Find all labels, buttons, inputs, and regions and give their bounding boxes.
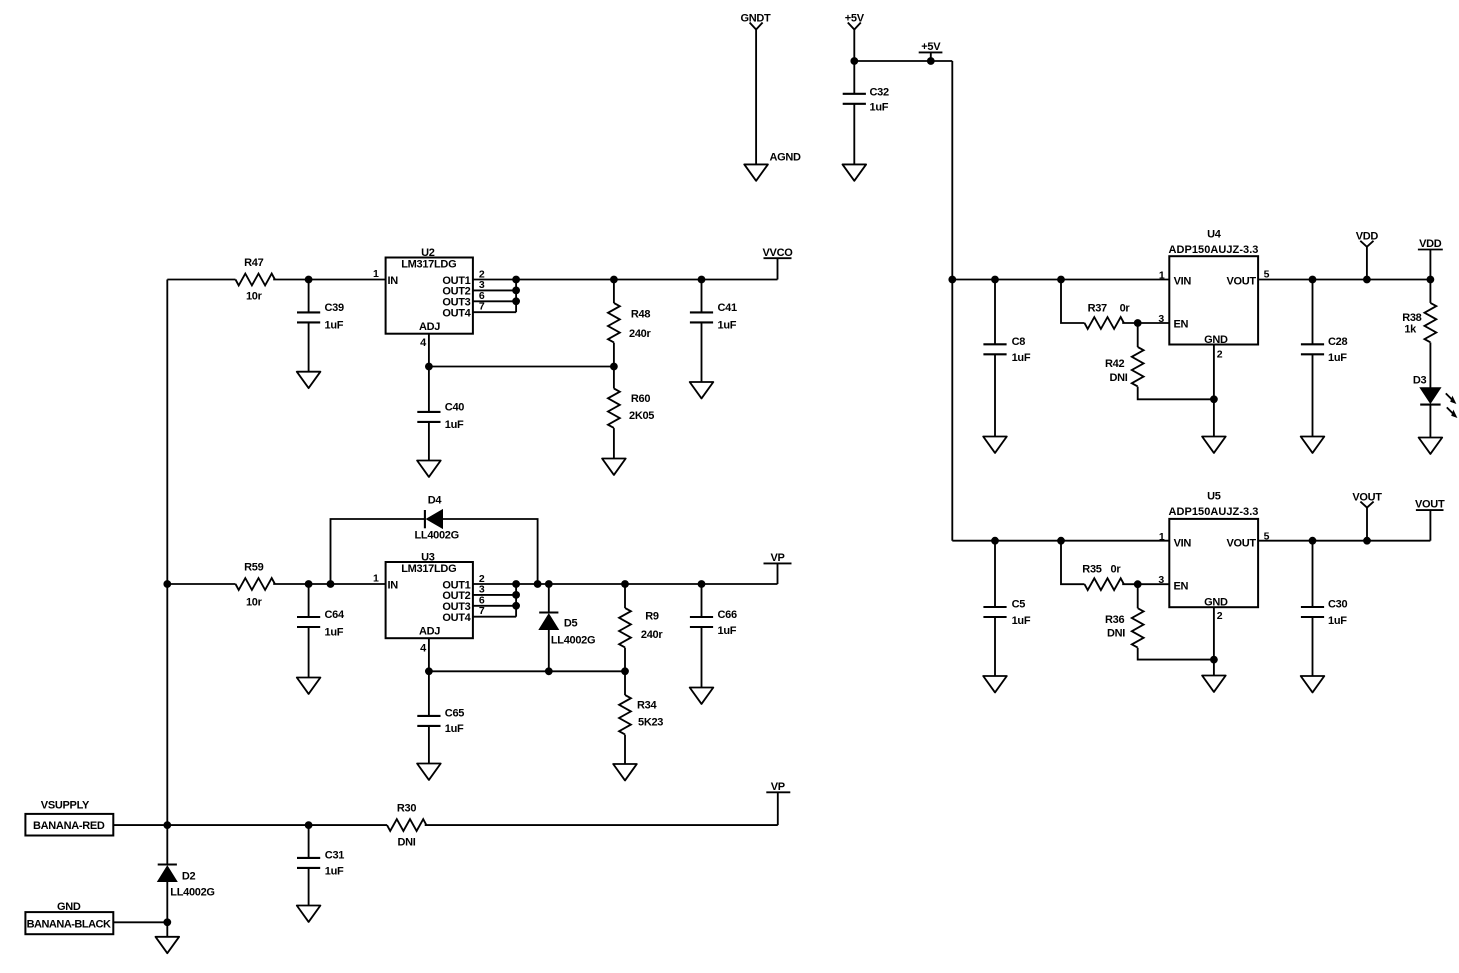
diode D4 LL4002G: [415, 494, 459, 541]
wire R30 to VP: [425, 824, 778, 826]
node C41 junction: [698, 276, 706, 284]
node R37 branch junction: [1057, 276, 1065, 284]
svg-text:C64: C64: [325, 609, 345, 621]
node VP terminal mid: [764, 552, 792, 584]
svg-text:+5V: +5V: [845, 12, 865, 24]
svg-text:1: 1: [373, 268, 379, 280]
resistor R35 0r: [1082, 564, 1124, 591]
resistor R48 240r: [608, 303, 651, 342]
svg-text:5K23: 5K23: [638, 717, 663, 729]
wire joining U3 outputs: [515, 584, 517, 617]
svg-text:1uF: 1uF: [1328, 352, 1347, 364]
svg-text:D3: D3: [1413, 375, 1427, 387]
svg-text:VP: VP: [771, 781, 785, 793]
diode D2 LL4002G: [158, 825, 215, 899]
svg-text:GNDT: GNDT: [741, 12, 772, 24]
svg-text:C30: C30: [1328, 599, 1347, 611]
capacitor C65: [417, 708, 464, 736]
pin 5 U4: [1258, 268, 1430, 280]
pin 2 U3: [473, 573, 516, 585]
svg-text:3: 3: [1158, 574, 1164, 586]
svg-text:1uF: 1uF: [718, 320, 737, 332]
node label VOUT: [1415, 499, 1445, 541]
svg-text:1uF: 1uF: [1012, 352, 1031, 364]
ground under C40: [417, 461, 441, 477]
wire ADJ to R34 node: [429, 670, 625, 672]
wire GNDT to AGND: [755, 30, 757, 165]
wire GND stub: [166, 922, 168, 937]
ground under C64: [297, 678, 321, 694]
capacitor C40: [417, 402, 464, 432]
svg-text:2: 2: [1217, 349, 1223, 361]
svg-text:ADP150AUJZ-3.3: ADP150AUJZ-3.3: [1169, 244, 1259, 256]
resistor R34 5K23: [619, 695, 663, 734]
wire C39 to ground: [308, 322, 310, 371]
svg-text:OUT4: OUT4: [442, 307, 471, 319]
node label +5V: [919, 41, 943, 65]
resistor R30 DNI: [387, 803, 426, 849]
ground AGND: [744, 152, 801, 181]
svg-text:LL4002G: LL4002G: [170, 887, 214, 899]
wire U3 output rail: [516, 583, 777, 585]
node OUT2 junction U3: [512, 591, 520, 599]
svg-text:ADJ: ADJ: [419, 321, 440, 333]
wire ADJ to R48/R60 node: [429, 366, 614, 368]
svg-text:DNI: DNI: [1110, 372, 1128, 384]
svg-text:C5: C5: [1012, 599, 1026, 611]
svg-text:C40: C40: [445, 402, 464, 414]
wire R47 to U2 IN: [273, 279, 385, 281]
svg-text:GND: GND: [1204, 334, 1228, 346]
node ADJ junction: [425, 363, 433, 371]
wire C8 top: [994, 280, 996, 345]
pin 7 U2: [473, 301, 516, 313]
svg-text:VOUT: VOUT: [1226, 538, 1256, 550]
wire R42 top lead: [1137, 323, 1139, 347]
wire branch down to R37: [1061, 280, 1085, 324]
svg-text:VDD: VDD: [1356, 231, 1379, 243]
pin 5 U5: [1258, 530, 1430, 542]
node D5 top junction: [545, 580, 553, 588]
node junction D4 branch: [327, 580, 335, 588]
ground under U5 GND: [1202, 676, 1226, 692]
node R35 branch junction: [1057, 537, 1065, 545]
wire C31 to ground: [308, 868, 310, 906]
op-amp U2 LM317LDG box: [386, 247, 473, 334]
svg-text:1k: 1k: [1404, 324, 1417, 336]
wire R35 to EN: [1122, 583, 1169, 585]
capacitor C66: [690, 609, 737, 637]
svg-text:240r: 240r: [641, 629, 663, 641]
svg-text:AGND: AGND: [770, 152, 802, 164]
node OUT1 junction U3: [512, 580, 520, 588]
capacitor C39: [297, 302, 344, 332]
node ADJ junction U3: [425, 667, 433, 675]
wire R38 to D3: [1429, 343, 1431, 388]
svg-text:ADP150AUJZ-3.3: ADP150AUJZ-3.3: [1169, 506, 1259, 518]
wire VSUPPLY rail: [113, 824, 387, 826]
ground under C5: [983, 676, 1007, 692]
svg-text:VSUPPLY: VSUPPLY: [41, 799, 90, 811]
svg-text:C39: C39: [325, 302, 344, 314]
svg-text:DNI: DNI: [397, 836, 415, 848]
node R9/R34 junction: [621, 667, 629, 675]
svg-text:1: 1: [1159, 269, 1165, 281]
wire U2 output rail: [516, 279, 777, 281]
svg-text:U2: U2: [421, 247, 435, 259]
svg-text:R42: R42: [1105, 358, 1124, 370]
node junction C39: [305, 276, 313, 284]
diode D5 LL4002G: [539, 613, 595, 647]
node GND junction: [163, 918, 171, 926]
ground under C66: [690, 688, 714, 704]
wire C30 to ground: [1312, 617, 1314, 676]
wire C41 to ground: [701, 322, 703, 382]
connector VSUPPLY BANANA-RED: [25, 799, 113, 835]
wire C65 to ground: [428, 726, 430, 764]
svg-text:BANANA-BLACK: BANANA-BLACK: [27, 918, 111, 930]
wire +5V rail to U4 VIN: [952, 279, 1169, 281]
ground under U4 GND: [1202, 437, 1226, 453]
node C5 junction: [991, 537, 999, 545]
svg-text:1uF: 1uF: [445, 723, 464, 735]
svg-text:VOUT: VOUT: [1415, 499, 1445, 511]
svg-text:D4: D4: [428, 494, 443, 506]
capacitor C8: [983, 336, 1030, 364]
svg-text:VDD: VDD: [1419, 238, 1442, 250]
node C31 junction: [305, 821, 313, 829]
resistor R38 1k: [1402, 303, 1436, 342]
power terminal VOUT arrow: [1352, 491, 1382, 544]
pin 7 U3: [473, 605, 516, 617]
svg-text:C28: C28: [1328, 336, 1347, 348]
node OUT2 junction: [512, 287, 520, 295]
capacitor C32: [843, 87, 889, 114]
pin 4 ADJ U2: [420, 334, 429, 367]
node VP terminal bottom: [766, 781, 790, 825]
node left rail VSUPPLY junction: [163, 821, 171, 829]
wire R59 to U3 IN: [273, 583, 385, 585]
wire C32 to ground: [853, 104, 855, 165]
svg-text:1uF: 1uF: [325, 866, 344, 878]
resistor R47 10r: [236, 257, 275, 303]
op-amp U3 LM317LDG box: [386, 551, 473, 638]
svg-text:GND: GND: [1204, 596, 1228, 608]
wire C41 top: [701, 280, 703, 313]
pin 3 U2: [473, 279, 516, 291]
svg-text:1uF: 1uF: [1012, 615, 1031, 627]
node VVCO terminal: [763, 247, 794, 280]
wire R60 to ground: [613, 428, 615, 458]
ground under C31: [297, 906, 321, 922]
ground under R34: [613, 764, 637, 780]
svg-text:1uF: 1uF: [870, 101, 889, 113]
wire C66 to ground: [701, 627, 703, 688]
svg-text:R48: R48: [631, 308, 650, 320]
power terminal GNDT: [741, 12, 772, 29]
node +5V rail U4 junction: [948, 276, 956, 284]
svg-text:IN: IN: [388, 275, 399, 287]
ground under C65: [417, 764, 441, 780]
capacitor C28: [1301, 336, 1348, 364]
svg-text:U4: U4: [1207, 228, 1222, 240]
svg-text:R35: R35: [1082, 564, 1101, 576]
svg-text:1: 1: [1159, 531, 1165, 543]
wire C28 top: [1312, 280, 1314, 345]
svg-text:LL4002G: LL4002G: [551, 634, 595, 646]
resistor R9 240r: [619, 608, 663, 647]
resistor R60 2K05: [608, 389, 654, 428]
svg-text:U3: U3: [421, 551, 435, 563]
node D4 output junction: [534, 580, 542, 588]
svg-text:DNI: DNI: [1107, 627, 1125, 639]
svg-text:5: 5: [1264, 268, 1270, 280]
ground under C39: [297, 372, 321, 388]
regulator U4 ADP150AUJZ-3.3 box: [1169, 228, 1259, 345]
wire R48 bottom lead: [613, 343, 615, 367]
ground under D3: [1419, 438, 1443, 454]
wire R36 to GND pin: [1138, 648, 1214, 660]
node left rail R59 junction: [163, 580, 171, 588]
svg-text:ADJ: ADJ: [419, 626, 440, 638]
ground under C32: [843, 164, 867, 180]
ground under C28: [1301, 437, 1325, 453]
wire +5V across top: [854, 60, 952, 62]
pin 2 GND U5: [1214, 607, 1223, 675]
pin 2 U2: [473, 268, 516, 280]
wire R48 top lead: [613, 280, 615, 304]
svg-text:5: 5: [1264, 530, 1270, 542]
wire C64 to ground: [308, 627, 310, 678]
wire +5V rail down right side: [951, 61, 953, 541]
svg-text:1uF: 1uF: [325, 320, 344, 332]
wire D4 to output branch: [443, 519, 538, 584]
pin 6 U3: [473, 595, 516, 607]
wire C28 to ground: [1312, 354, 1314, 436]
wire C31 top: [308, 825, 310, 858]
svg-text:D2: D2: [182, 871, 196, 883]
svg-text:R37: R37: [1088, 302, 1107, 314]
capacitor C5: [983, 599, 1030, 627]
capacitor C41: [690, 302, 737, 332]
wire +5V rail to U5 VIN: [952, 540, 1169, 542]
node R48 top junction: [610, 276, 618, 284]
svg-text:EN: EN: [1174, 318, 1189, 330]
wire C5 to ground: [994, 617, 996, 676]
wire D5 bottom lead: [548, 630, 550, 672]
svg-text:1uF: 1uF: [1328, 615, 1347, 627]
wire R37 to EN: [1122, 322, 1169, 324]
pin 4 ADJ U3: [420, 638, 429, 671]
node R42/GND junction: [1210, 395, 1218, 403]
wire input to R59: [167, 583, 235, 585]
svg-text:IN: IN: [388, 579, 399, 591]
capacitor C31: [297, 850, 344, 878]
ground under C30: [1301, 676, 1325, 692]
node OUT3 junction: [512, 297, 520, 305]
LED D3: [1413, 375, 1458, 418]
wire R42 to GND pin: [1138, 387, 1214, 400]
svg-text:R36: R36: [1105, 614, 1124, 626]
wire C8 to ground: [994, 354, 996, 436]
svg-text:LM317LDG: LM317LDG: [401, 258, 456, 270]
svg-text:0r: 0r: [1111, 564, 1122, 576]
capacitor C64: [297, 609, 345, 638]
resistor R42 DNI: [1105, 347, 1144, 386]
svg-text:C41: C41: [718, 302, 737, 314]
svg-text:1uF: 1uF: [325, 626, 344, 638]
node junction C64: [305, 580, 313, 588]
wire C30 top: [1312, 541, 1314, 607]
svg-text:7: 7: [479, 605, 485, 617]
wire D5 top lead: [548, 584, 550, 613]
svg-text:1: 1: [373, 573, 379, 585]
svg-text:R38: R38: [1402, 312, 1421, 324]
svg-text:GND: GND: [57, 901, 81, 913]
svg-text:1uF: 1uF: [718, 625, 737, 637]
svg-text:10r: 10r: [246, 597, 263, 609]
wire branch down to R35: [1061, 541, 1085, 585]
svg-text:+5V: +5V: [921, 41, 941, 53]
node OUT1 junction: [512, 276, 520, 284]
svg-text:OUT4: OUT4: [442, 612, 471, 624]
pin 6 U2: [473, 290, 516, 302]
svg-text:2K05: 2K05: [629, 410, 654, 422]
power terminal VDD arrow: [1356, 231, 1379, 284]
wire joining U2 outputs: [515, 280, 517, 313]
svg-text:VOUT: VOUT: [1226, 276, 1256, 288]
svg-text:R30: R30: [397, 803, 416, 815]
svg-text:VIN: VIN: [1174, 276, 1192, 288]
wire R36 top lead: [1137, 584, 1139, 608]
wire R38 top lead: [1429, 280, 1431, 303]
resistor R59 10r: [236, 562, 275, 609]
wire R34 top lead: [624, 671, 626, 695]
pin 3 U3: [473, 584, 516, 596]
svg-text:240r: 240r: [629, 328, 651, 340]
wire +5V down to C32: [853, 30, 855, 94]
node C28 junction: [1309, 276, 1317, 284]
resistor R37 0r: [1085, 302, 1131, 329]
pin 2 GND U4: [1214, 345, 1223, 437]
node C30 junction: [1309, 537, 1317, 545]
svg-text:R34: R34: [637, 700, 657, 712]
node EN junction U5: [1134, 580, 1142, 588]
node C8 junction: [991, 276, 999, 284]
wire left rail vertical: [166, 280, 168, 826]
svg-text:VP: VP: [770, 552, 784, 564]
svg-text:VVCO: VVCO: [763, 247, 794, 259]
svg-text:C31: C31: [325, 850, 344, 862]
wire BANANA-BLACK to rail: [113, 921, 167, 923]
svg-text:1uF: 1uF: [445, 419, 464, 431]
resistor R36 DNI: [1105, 608, 1144, 647]
svg-text:U5: U5: [1207, 490, 1221, 502]
ground under R60: [602, 459, 626, 475]
wire D3 to ground: [1429, 405, 1431, 438]
svg-text:R59: R59: [244, 562, 263, 574]
svg-text:C32: C32: [870, 87, 889, 99]
svg-text:EN: EN: [1174, 580, 1189, 592]
svg-text:3: 3: [1158, 313, 1164, 325]
wire R60 top lead: [613, 367, 615, 389]
wire C64 top: [308, 584, 310, 617]
svg-text:VOUT: VOUT: [1352, 491, 1382, 503]
node R48/R60 junction: [610, 363, 618, 371]
wire C40 top: [428, 367, 430, 412]
svg-text:LM317LDG: LM317LDG: [401, 563, 456, 575]
node EN junction: [1134, 319, 1142, 327]
svg-text:R9: R9: [645, 611, 659, 623]
svg-text:0r: 0r: [1120, 302, 1131, 314]
wire C40 to ground: [428, 422, 430, 461]
svg-text:C66: C66: [718, 609, 737, 621]
wire C5 top: [994, 541, 996, 607]
node R36/GND junction: [1210, 656, 1218, 664]
node label VDD: [1418, 238, 1443, 283]
node C66 junction: [698, 580, 706, 588]
wire R9 bottom lead: [624, 648, 626, 672]
svg-text:BANANA-RED: BANANA-RED: [33, 820, 105, 832]
svg-text:10r: 10r: [246, 291, 263, 303]
node +5V junction: [850, 57, 858, 65]
ground under C8: [983, 437, 1007, 453]
svg-text:LL4002G: LL4002G: [415, 530, 459, 542]
node D5 bottom junction: [545, 667, 553, 675]
wire input to R47: [167, 279, 235, 281]
node R9 top junction: [621, 580, 629, 588]
node OUT3 junction U3: [512, 602, 520, 610]
svg-text:VIN: VIN: [1174, 538, 1192, 550]
svg-text:R60: R60: [631, 393, 650, 405]
wire C66 top: [701, 584, 703, 617]
svg-text:R47: R47: [244, 257, 263, 269]
svg-text:C8: C8: [1012, 336, 1026, 348]
connector GND BANANA-BLACK: [25, 901, 113, 934]
svg-text:2: 2: [1217, 610, 1223, 622]
svg-text:7: 7: [479, 301, 485, 313]
wire R34 to ground: [624, 735, 626, 764]
wire R9 top lead: [624, 584, 626, 608]
svg-text:D5: D5: [564, 617, 578, 629]
wire D4 branch up: [331, 519, 425, 584]
power terminal +5V: [845, 12, 865, 29]
regulator U5 ADP150AUJZ-3.3 box: [1169, 490, 1259, 608]
svg-text:C65: C65: [445, 708, 464, 720]
ground under C41: [690, 382, 714, 398]
ground under GND rail: [156, 937, 180, 953]
capacitor C30: [1301, 599, 1348, 627]
wire C65 top: [428, 671, 430, 716]
wire C39 top: [308, 280, 310, 313]
wire D2 to GND rail: [166, 882, 168, 923]
